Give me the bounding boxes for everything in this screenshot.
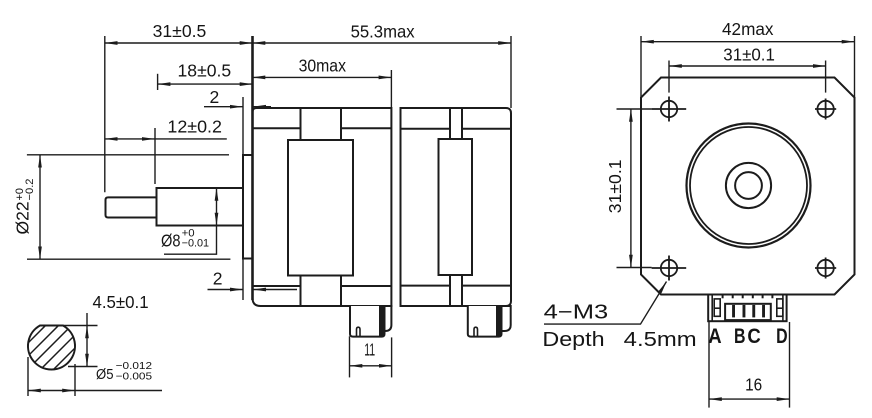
dimension line diameter 5: [28, 390, 75, 392]
dimension 31±0.5 extension line at shaft tip: [104, 36, 106, 192]
connector foot under block 1: [350, 306, 385, 337]
dimension line 18±0.5: [158, 83, 253, 85]
detail flat extension line: [40, 325, 98, 327]
dimension 2 (bottom) left tail with arrow: [208, 289, 243, 291]
diameter 5 extension lines: [27, 357, 29, 396]
dimension 30max extension line: [390, 70, 392, 108]
dimension 55.3max extension line at rear: [510, 36, 512, 108]
svg-text:4−M3: 4−M3: [544, 302, 609, 324]
label 31±0.1 (vertical, rotated): [605, 160, 625, 214]
connector pin shroud: [725, 304, 771, 320]
svg-text:2: 2: [213, 269, 223, 289]
motor block 1 winding rectangle: [288, 140, 353, 276]
dimension 2 (bottom) right tail with arrow: [253, 289, 297, 291]
dimension line 31±0.5: [105, 42, 253, 44]
front view square body with chamfered corners: [641, 78, 855, 295]
dimension 31±0.1 vertical extension lines: [617, 108, 652, 110]
motor block 1 bottom tab: [301, 276, 342, 307]
shaft (diameter 5 section): [106, 197, 157, 217]
svg-text:55.3max: 55.3max: [351, 22, 415, 42]
label diameter 22 with tolerance (rotated): [13, 179, 37, 235]
motor block 1 top tab: [301, 108, 342, 140]
svg-text:Depth: Depth: [542, 329, 604, 351]
dimension line 30max: [253, 76, 392, 78]
motor block 1 top end-cap line: [253, 127, 392, 129]
dimension 31±0.1 horizontal extension lines: [668, 61, 670, 93]
mounting hole bottom-left: [652, 256, 687, 281]
svg-text:D: D: [776, 325, 788, 348]
dimension 2 (top) extension line at boss face: [242, 97, 244, 155]
diameter 8 leader line: [164, 226, 217, 255]
svg-text:−0.01: −0.01: [182, 237, 210, 249]
svg-text:4.5mm: 4.5mm: [624, 329, 697, 351]
dimension line 31±0.1 horizontal: [669, 65, 826, 67]
pilot boss (diameter 22): [243, 155, 253, 259]
svg-text:4.5±0.1: 4.5±0.1: [93, 292, 149, 312]
dimension 18±0.5 extension line: [157, 74, 159, 90]
connector right latch box: [777, 299, 783, 316]
svg-text:Ø8: Ø8: [161, 231, 181, 251]
diameter 8 dimension line with arrows: [216, 188, 218, 226]
dimension 12±0.2 extension line: [154, 128, 156, 184]
svg-text:31±0.5: 31±0.5: [153, 21, 207, 41]
dimension 16 extension lines: [708, 322, 710, 408]
diameter 22 dimension line: [39, 155, 41, 259]
svg-text:31±0.1: 31±0.1: [723, 45, 775, 65]
dimension line 12±0.2 with tail: [105, 138, 155, 140]
front face outer circle: [687, 124, 811, 248]
diameter 22 bottom extension line: [27, 258, 230, 260]
wire notch in foot 1: [357, 327, 361, 336]
connector pins: [732, 305, 765, 318]
motor block 2 body outline: [401, 108, 512, 306]
svg-text:11: 11: [364, 339, 375, 359]
inner edge of foot 2: [496, 306, 502, 336]
dimension 42max extension lines: [640, 36, 642, 99]
motor block 2 bottom tab: [450, 275, 462, 306]
motor block 2 top end-cap line: [401, 128, 512, 130]
motor block 1 body outline: [253, 108, 392, 306]
connector housing: [708, 295, 786, 322]
svg-text:42max: 42max: [722, 19, 774, 39]
leader line 4-M3: [544, 282, 667, 325]
rear flange tab of block 2: [502, 306, 511, 331]
motor block 2 bottom end-cap line: [401, 285, 512, 287]
dimension line 31±0.1 vertical: [630, 109, 632, 268]
dimension 2 (top) left tail with arrow: [204, 106, 243, 108]
connector left latch box: [714, 299, 720, 316]
detail bottom tangent extension line: [68, 366, 98, 368]
svg-text:C: C: [747, 325, 760, 348]
svg-text:18±0.5: 18±0.5: [178, 61, 232, 81]
hatching of detail circle: [8, 303, 108, 375]
svg-text:12±0.2: 12±0.2: [167, 117, 222, 137]
motor block 1 bottom end-cap line: [253, 285, 392, 287]
dimension 11 extension lines: [349, 336, 351, 377]
diameter 22 top extension line: [27, 154, 229, 156]
motor block 2 winding rectangle: [439, 139, 473, 275]
mounting hole top-right: [815, 99, 836, 120]
inner edge of foot 1: [379, 306, 385, 336]
dimension line 11: [350, 365, 392, 367]
rear flange tab of block 1: [385, 306, 392, 331]
dimension 2 (top) right tail with arrow: [253, 106, 271, 108]
wire: front face / extension line of motor body: [251, 36, 254, 300]
shaft shoulder (diameter 8 section): [157, 188, 244, 226]
connector top ticks: [723, 295, 773, 299]
shaft boss circle: [726, 163, 771, 208]
wire notch in foot 2: [474, 327, 478, 336]
connector inner side walls: [711, 295, 713, 322]
mounting hole top-left: [652, 97, 687, 122]
svg-text:16: 16: [745, 375, 762, 395]
svg-text:B: B: [734, 325, 746, 348]
dimension line 4.5±0.1: [86, 313, 88, 326]
svg-text:A: A: [708, 325, 721, 348]
dimension line 16: [709, 398, 790, 400]
svg-text:2: 2: [210, 87, 220, 107]
svg-text:31±0.1: 31±0.1: [605, 160, 625, 214]
svg-text:Ø22: Ø22: [13, 201, 33, 234]
shaft circle: [735, 172, 762, 199]
svg-text:30max: 30max: [299, 55, 347, 75]
dimension 2 (bottom) extension line at boss face: [242, 256, 244, 300]
svg-text:−0.005: −0.005: [116, 371, 153, 383]
dimension line 55.3max: [253, 42, 512, 44]
mounting hole bottom-right: [815, 258, 836, 279]
front face inner ring: [690, 127, 807, 244]
svg-text:−0.2: −0.2: [24, 179, 36, 201]
svg-text:Ø5: Ø5: [96, 367, 114, 383]
dimension line 42max: [641, 41, 855, 43]
shaft cross-section detail: D-cut circle: [28, 326, 75, 370]
connector foot under block 2: [468, 306, 502, 337]
motor block 2 top tab: [450, 108, 462, 139]
